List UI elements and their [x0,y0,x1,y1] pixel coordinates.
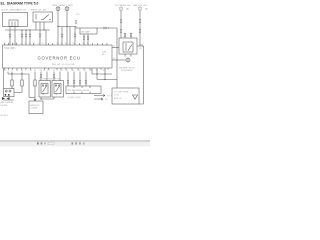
relay box inner [123,42,133,52]
wire to connector box C [76,27,80,29]
relay bottom stubs [125,54,131,57]
wire box B pin x40 [39,22,41,45]
inline connector ticks on bus right [104,27,106,29]
ECU ground pin x105 [104,68,106,80]
svg-text:CON: CON [114,95,119,97]
relay top pin x125 [124,33,126,38]
memory clear arrow [34,98,36,101]
svg-text:MEMORY: MEMORY [31,105,41,107]
ECU top pin stubs [5,43,108,45]
svg-text:W.T SEN: W.T SEN [63,5,73,7]
relay right stub [137,45,144,47]
wire bus to ECU pin x22 [21,30,23,45]
junction dots top area [21,26,109,31]
connectors top area [9,34,11,37]
wire sensor S1 down [57,11,59,45]
connector box C [80,28,97,34]
ECU bottom wire x8 [7,72,9,75]
svg-text:NOTE 1: NOTE 1 [1,115,10,117]
SB bottom wire [53,97,55,99]
relay box outer [119,38,137,54]
note box bottom right [112,88,139,104]
wire box A pin 2 down [14,27,16,46]
wire x62 to ECU [61,27,63,46]
junction dots bottom area [11,73,105,99]
wire sensor S2 down [66,11,68,45]
svg-text:EL_DIAGRAM TYPE 5.0: EL_DIAGRAM TYPE 5.0 [1,1,39,5]
svg-text:IDLE SW: IDLE SW [17,10,27,12]
right supply wire down [139,46,144,104]
wire box B pin x36 [35,22,37,30]
svg-text:(B): (B) [126,8,129,10]
toolbar icon group 1 [37,142,39,144]
svg-text:ENGINE STOP: ENGINE STOP [119,67,135,69]
diode pair [2,97,5,100]
wire box B pin x44 [43,22,45,30]
inner block wiper lines [12,22,15,27]
bus mid horizontal [58,26,76,28]
fuse F2 [21,80,23,86]
ECU top pin labels row [4,43,90,45]
bus left horizontal [5,29,50,31]
strip connector box [66,86,101,94]
sensor S1 circle [56,7,60,11]
ECU right stub to relay [112,47,119,49]
svg-text:DPF SW: DPF SW [52,79,61,81]
relay top pin x131 [130,33,132,38]
SA contact [43,86,47,92]
cluster right wire [4,93,23,101]
svg-text:AIR CLN SW: AIR CLN SW [134,4,148,7]
ECU ground pin x97 [96,68,98,80]
wire bus to ECU pin x26 [25,30,27,45]
SA inner box [41,84,48,94]
switch B contact [43,15,49,20]
switch box SA [39,81,51,98]
ECU bottom wire x12 with fuse [11,72,13,89]
svg-text:(2): (2) [139,48,142,50]
long return wire right [116,28,118,88]
sensor S4 circle [138,7,142,11]
bus right horizontal [97,27,117,29]
SB contact [56,86,60,92]
bottom toolbar [0,141,150,146]
wire sensor S4 down [139,11,141,46]
GOVERNOR ECU box [3,45,113,68]
ECU wires to strip connector [68,72,86,87]
wire x46 bus to ECU [45,30,47,45]
svg-text:GOVERNOR ECU: GOVERNOR ECU [38,56,81,61]
ECU bottom pin stubs [5,68,109,70]
svg-text:ERR LP: ERR LP [114,98,122,100]
wire x70 to ECU [69,27,71,46]
wire x75 to ECU [74,27,76,46]
svg-text:W1 WF3 EX8 U8 LB: W1 WF3 EX8 U8 LB [68,90,90,92]
bottom bus left [8,73,29,75]
svg-text:THROTTLE SW: THROTTLE SW [30,10,47,12]
drop wire to memory [29,74,35,98]
svg-text:L/S: L/S [76,14,80,16]
switch B posts [36,14,51,20]
SA bottom wire [41,97,54,99]
ECU bottom pin labels row [4,70,106,72]
sensor box A inner block [9,20,18,27]
svg-text:(T)(W) #@(2): (T)(W) #@(2) [68,97,81,99]
svg-text:TO M: TO M [107,96,113,98]
relay coil bar [125,43,127,51]
strip divider ticks [74,86,90,94]
switch box B [33,12,53,22]
fuse F1 [11,80,13,86]
svg-text:OIL PRESS SW: OIL PRESS SW [115,5,132,7]
svg-text:CLEAR: CLEAR [31,107,38,110]
memory clear box [29,101,43,114]
ECU bottom wire x35 with fuse [34,72,36,99]
svg-text:12V: 12V [139,44,144,47]
svg-text:SOLENOID: SOLENOID [121,70,133,72]
svg-text:(B): (B) [145,8,148,10]
ground bus b [97,79,117,81]
SB inner box [54,84,61,94]
sensor box A [3,13,28,27]
svg-text:SL.DWN SW: SL.DWN SW [39,79,53,81]
svg-text:TO CHK TERM: TO CHK TERM [114,91,129,93]
wire bus to ECU pin x30 [29,30,31,45]
fuse F3 [34,80,36,86]
svg-text:BATT RELAY: BATT RELAY [1,101,15,104]
stop lamp circle [126,58,130,62]
relay contact [128,45,132,51]
bottom area labels [1,79,129,117]
ECU bottom wire x22 with fuse [21,72,23,93]
signal arrow 1 [94,94,105,96]
svg-text:CN1 (36P): CN1 (36P) [5,48,16,50]
switch box SB [52,81,64,98]
ECU right stub lamp [112,59,126,61]
sensor S3 circle [119,7,142,11]
top area labels [2,4,149,33]
ECU bottom wire x3.5 [3,68,5,89]
sensor S2 circle [65,7,69,11]
battery cluster box [4,89,15,97]
svg-text:3N4 W2 (4) (2) ECUB: 3N4 W2 (4) (2) ECUB [52,64,75,66]
ground bus a [92,68,112,74]
cluster contact circles [5,90,7,92]
svg-text:LH·2(8)P: LH·2(8)P [81,31,90,33]
svg-text:12R: 12R [102,51,106,53]
connectors bottom area [40,75,42,78]
wire C pin x84 [83,34,85,45]
wire sensor S3 down to relay [120,11,122,38]
ECU wires to switch boxes [41,72,60,81]
signal arrow 2 [94,98,103,100]
wire box A pin 1 down [9,27,11,46]
toolbar icon group 2 [72,142,74,144]
note box triangle [133,95,138,99]
cluster junction dots [5,94,7,96]
wire C pin x88 [87,34,89,45]
svg-text:DIODE: DIODE [1,105,8,107]
